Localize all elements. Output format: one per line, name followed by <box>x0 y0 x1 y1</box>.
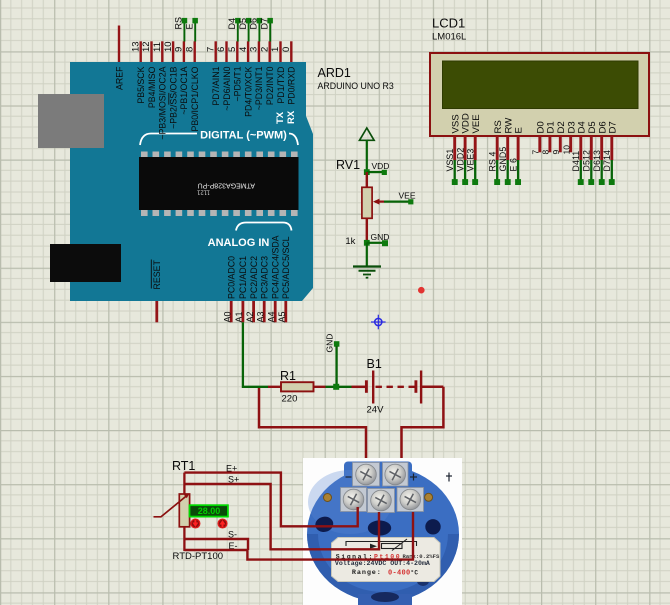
battery cell 2 long plate <box>420 371 422 404</box>
svg-text:E 6: E 6 <box>509 158 519 172</box>
svg-text:PD7/AIN1: PD7/AIN1 <box>211 66 221 105</box>
svg-text:RX: RX <box>286 110 297 124</box>
wire terminal D6 above pin 3 <box>258 23 260 42</box>
svg-text:TX: TX <box>275 111 286 124</box>
LCD pin E wire to terminal <box>517 136 520 160</box>
svg-text:PC1/ADC1: PC1/ADC1 <box>238 256 248 299</box>
svg-text:D2: D2 <box>556 121 567 133</box>
svg-text:A4: A4 <box>267 311 277 322</box>
svg-text:RS: RS <box>174 17 184 30</box>
svg-text:LM016L: LM016L <box>432 32 466 43</box>
svg-text:7: 7 <box>530 150 540 155</box>
svg-text:9: 9 <box>174 47 185 52</box>
digital pin 4 stub <box>247 41 249 62</box>
svg-text:D714: D714 <box>602 150 612 171</box>
svg-text:E: E <box>185 23 195 29</box>
svg-text:D7: D7 <box>607 121 618 133</box>
digital bracket right <box>289 134 298 146</box>
digital pin 1 stub <box>279 41 281 62</box>
svg-text:PD0/RXD: PD0/RXD <box>287 67 297 105</box>
svg-text:1k: 1k <box>345 236 355 247</box>
svg-text:PB0/ICP1/CLKO: PB0/ICP1/CLKO <box>190 66 200 131</box>
svg-text:RESET: RESET <box>152 260 162 290</box>
junction RV1 bottom <box>364 240 370 246</box>
screw heads <box>356 464 377 485</box>
wire E+ <box>184 473 357 527</box>
svg-text:D1: D1 <box>546 121 557 133</box>
LCD pin D7 wire to terminal <box>610 136 613 160</box>
svg-text:GND: GND <box>371 232 390 242</box>
IC ATMEGA328P chip body <box>139 157 299 210</box>
svg-text:~PD3/INT1: ~PD3/INT1 <box>254 66 264 110</box>
svg-text:1: 1 <box>270 47 281 52</box>
svg-text:R1: R1 <box>280 369 296 383</box>
LCD pin RS wire to terminal <box>496 136 499 160</box>
RTD body <box>179 494 189 527</box>
svg-text:PD4/T0/XCK: PD4/T0/XCK <box>243 66 253 116</box>
RT1 down button <box>191 519 200 528</box>
analog pin A0 stub <box>230 301 233 322</box>
RV1 pot body <box>362 187 372 218</box>
svg-text:8: 8 <box>184 47 195 52</box>
RTD transmitter photo background <box>303 458 462 605</box>
AREF pin stub <box>118 26 120 63</box>
svg-text:GND5: GND5 <box>498 147 508 172</box>
svg-text:GND: GND <box>324 334 334 353</box>
digital pin 3 stub <box>258 41 260 62</box>
battery dashed link <box>376 386 415 388</box>
svg-text:RS 4: RS 4 <box>488 152 498 172</box>
wire terminal RS above pin 9 <box>183 23 185 42</box>
svg-text:PB4/MISO: PB4/MISO <box>147 66 157 108</box>
svg-text:11: 11 <box>152 42 163 52</box>
svg-text:RTD-PT100: RTD-PT100 <box>173 551 224 562</box>
svg-text:A3: A3 <box>256 311 266 322</box>
svg-text:ARDUINO UNO R3: ARDUINO UNO R3 <box>318 81 394 91</box>
svg-text:RV1: RV1 <box>336 158 360 172</box>
LCD pin D1 stub <box>548 136 551 152</box>
wire R1 to battery (GND net) <box>326 386 352 388</box>
ground symbol <box>353 267 381 278</box>
svg-text:A1: A1 <box>234 311 244 322</box>
power jack <box>50 244 121 282</box>
svg-text:VSS: VSS <box>450 114 461 133</box>
svg-text:PC0/ADC0: PC0/ADC0 <box>227 256 237 299</box>
RT1 up button <box>218 519 227 528</box>
junction RV1 top <box>364 169 370 175</box>
wire battery+ right <box>421 386 443 389</box>
LCD pin VDD wire to terminal <box>464 136 467 160</box>
wire GND terminal down <box>335 346 337 385</box>
polarity marks <box>346 473 453 482</box>
wire terminal E above pin 8 <box>194 23 196 42</box>
svg-text:12: 12 <box>141 41 152 52</box>
wire S+ <box>184 484 379 549</box>
wire drop from R1 net to transmitter left terminal <box>259 388 366 479</box>
LCD pin RW wire to terminal <box>506 136 509 160</box>
LCD pin D2 stub <box>559 136 562 152</box>
svg-text:RS: RS <box>493 120 504 133</box>
wire to GND terminal <box>367 242 382 244</box>
svg-text:VDD2: VDD2 <box>456 148 466 172</box>
svg-text:D5: D5 <box>238 18 248 30</box>
analog pin A2 stub <box>252 301 255 322</box>
RT1 left pin riser bottom <box>183 527 185 551</box>
svg-text:9: 9 <box>551 150 561 155</box>
label circuit drawing <box>346 539 417 551</box>
resistor R1 body <box>281 382 314 391</box>
wire pot bottom <box>366 218 368 243</box>
svg-text:4: 4 <box>238 47 249 52</box>
svg-text:D613: D613 <box>592 150 602 171</box>
svg-text:VEE: VEE <box>471 114 482 133</box>
svg-text:PC2/ADC2: PC2/ADC2 <box>249 256 259 299</box>
wire terminal D5 above pin 4 <box>248 23 250 42</box>
svg-text:D512: D512 <box>582 150 592 171</box>
digital pin 12 stub <box>150 41 152 62</box>
digital pin 10 stub <box>172 41 174 62</box>
power symbol (VDD arrow) <box>360 128 375 140</box>
wire E- joining S- <box>184 512 413 560</box>
Arduino Uno module ARD1 board body <box>70 62 313 301</box>
wire A1 down from Arduino <box>242 322 244 388</box>
spec label panel <box>332 538 441 582</box>
RESET pin stub <box>155 301 158 322</box>
red marker dot <box>418 287 425 294</box>
digital pin 0 stub <box>290 41 292 62</box>
transmitter blue body <box>344 462 412 504</box>
IC ATMEGA328P chip pins <box>141 152 298 217</box>
svg-text:DIGITAL (~PWM): DIGITAL (~PWM) <box>200 130 287 142</box>
svg-text:RT1: RT1 <box>172 459 195 473</box>
svg-text:0-400°C: 0-400°C <box>388 570 418 578</box>
svg-text:~PB1/OC1A: ~PB1/OC1A <box>179 66 189 114</box>
svg-text:D7: D7 <box>260 18 270 30</box>
RTD diagonal arrow <box>154 495 189 517</box>
svg-text:~PD5/T1: ~PD5/T1 <box>233 66 243 101</box>
svg-text:PC3/ADC3: PC3/ADC3 <box>260 256 270 299</box>
analog pin A1 stub <box>241 301 244 322</box>
wire from battery+ to transmitter right terminal <box>402 387 444 478</box>
analog bracket <box>236 223 292 231</box>
digital pin 9 stub <box>183 41 185 62</box>
svg-text:D4: D4 <box>576 121 587 134</box>
wire A1 to R1 <box>243 386 268 388</box>
svg-text:AREF: AREF <box>114 66 124 90</box>
svg-text:3: 3 <box>249 47 260 52</box>
battery lead left <box>352 386 366 389</box>
svg-text:D5: D5 <box>587 121 598 133</box>
svg-text:PC5/ADC5/SCL: PC5/ADC5/SCL <box>281 236 291 299</box>
digital pin 2 stub <box>269 41 271 62</box>
svg-text:~PB3/MOSI/OC2A: ~PB3/MOSI/OC2A <box>158 66 168 139</box>
svg-text:E: E <box>514 127 525 133</box>
svg-text:D411: D411 <box>571 151 581 172</box>
wire terminal D4 above pin 5 <box>237 23 239 42</box>
LCD LM016L body <box>430 53 649 136</box>
svg-text:10: 10 <box>163 41 174 52</box>
svg-text:D4: D4 <box>227 18 237 30</box>
battery cell 1 short plate <box>365 380 368 393</box>
svg-text:10: 10 <box>561 145 571 155</box>
svg-text:VEE: VEE <box>399 191 416 201</box>
R1 lead right <box>314 386 326 388</box>
svg-text:A5: A5 <box>277 311 287 322</box>
wire power to RV1 top <box>366 140 368 172</box>
svg-text:VSS1: VSS1 <box>445 149 455 172</box>
RV1 wiper arrow <box>375 201 384 203</box>
LCD pin VEE wire to terminal <box>474 136 477 160</box>
LCD pin VSS wire to terminal <box>453 136 456 160</box>
svg-text:VEE3: VEE3 <box>466 149 476 172</box>
svg-text:28.00: 28.00 <box>198 506 221 516</box>
analog pin A3 stub <box>263 301 266 322</box>
svg-text:13: 13 <box>130 41 141 52</box>
analog pin A4 stub <box>274 301 277 322</box>
LCD pin D3 stub <box>569 136 572 152</box>
gold side screws <box>324 494 332 502</box>
svg-text:~PD6/AIN0: ~PD6/AIN0 <box>222 66 232 110</box>
R1 lead left <box>268 386 281 388</box>
svg-text:A0: A0 <box>223 311 233 322</box>
digital pin 11 stub <box>161 41 163 62</box>
junction at R1/battery <box>333 384 339 390</box>
LCD pin D4 wire to terminal <box>579 136 582 160</box>
svg-text:RW: RW <box>503 117 514 134</box>
RT1 left pin riser top <box>183 473 185 494</box>
battery cell 2 short plate <box>414 380 417 393</box>
svg-text:ANALOG IN: ANALOG IN <box>208 237 270 249</box>
svg-text:D6: D6 <box>249 18 259 30</box>
svg-text:ATMEGA328P-PU: ATMEGA328P-PU <box>198 182 255 189</box>
blue origin crosshair <box>371 315 386 330</box>
svg-text:1121: 1121 <box>196 189 210 195</box>
digital pin 8 stub <box>193 41 195 62</box>
svg-text:PB5/SCK: PB5/SCK <box>136 66 146 103</box>
svg-text:A2: A2 <box>245 311 255 322</box>
svg-text:6: 6 <box>216 47 227 52</box>
battery cell 1 long plate <box>372 371 374 404</box>
analog pin A5 stub <box>284 301 287 322</box>
LCD pin D5 wire to terminal <box>590 136 593 160</box>
wire to ground <box>366 243 368 266</box>
USB connector <box>38 94 104 148</box>
svg-text:PD2/INT0: PD2/INT0 <box>265 66 275 105</box>
LCD pin D0 stub <box>538 136 541 152</box>
svg-text:220: 220 <box>282 394 298 405</box>
svg-text:PD1/TXD: PD1/TXD <box>276 67 286 104</box>
svg-text:8: 8 <box>541 150 551 155</box>
svg-text:B1: B1 <box>367 357 382 371</box>
svg-text:5: 5 <box>227 47 238 52</box>
wire wiper to VEE terminal <box>384 201 410 203</box>
svg-text:24V: 24V <box>367 405 385 416</box>
dark oval holes <box>314 515 334 533</box>
wire S- <box>184 539 248 550</box>
digital pin 7 stub <box>214 41 216 62</box>
svg-text:Range:: Range: <box>352 569 382 577</box>
digital pin 6 stub <box>225 41 227 62</box>
svg-text:2: 2 <box>259 47 270 52</box>
svg-text:0: 0 <box>281 47 292 52</box>
digital pin 13 stub <box>139 41 141 62</box>
svg-text:7: 7 <box>205 47 216 52</box>
LCD screen <box>443 61 639 109</box>
digital bracket left <box>140 134 197 146</box>
svg-text:LCD1: LCD1 <box>432 16 465 31</box>
screw terminal bases <box>341 463 424 513</box>
RTD value display <box>190 505 228 516</box>
svg-text:Voltage:24VDC OUT:4-20mA: Voltage:24VDC OUT:4-20mA <box>335 560 430 567</box>
LCD pin D6 wire to terminal <box>600 136 603 160</box>
svg-text:ARD1: ARD1 <box>318 66 351 80</box>
svg-text:PC4/ADC4/SDA: PC4/ADC4/SDA <box>271 235 281 299</box>
wire to VDD terminal <box>367 171 382 173</box>
svg-text:~PB2/SS/OC1B: ~PB2/SS/OC1B <box>168 66 178 129</box>
wire terminal D7 above pin 2 <box>269 23 271 42</box>
digital pin 5 stub <box>236 41 238 62</box>
svg-text:VDD: VDD <box>372 161 390 171</box>
wire junction to pot body <box>366 172 368 187</box>
